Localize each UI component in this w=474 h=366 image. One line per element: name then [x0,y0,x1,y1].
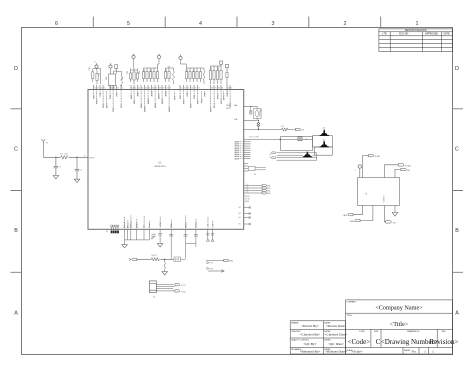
off-page connector K1a [175,284,180,286]
transceiver U2 body [358,178,400,206]
capacitor C1 [54,157,58,175]
svg-text:P30: P30 [204,92,206,97]
svg-text:3: 3 [272,21,275,27]
svg-text:SHEET:: SHEET: [404,350,411,352]
svg-text:REV: REV [442,331,447,333]
svg-text:5V: 5V [46,143,49,145]
svg-text:58: 58 [117,88,119,90]
svg-text:B: B [14,228,18,234]
U1 right pin wire P0 [244,185,262,187]
ground (C3) [157,244,163,247]
svg-text:C1: C1 [59,166,61,168]
resistor R24 [193,68,195,82]
svg-text:1: 1 [432,349,434,353]
transistor Q2 (dark) [321,142,328,147]
svg-text:<Release Date>: <Release Date> [325,350,347,354]
svg-text:P50: P50 [210,268,213,270]
wire long vertical 2 + bend [184,229,198,258]
svg-text:R23: R23 [187,69,189,72]
svg-text:60: 60 [247,184,249,186]
svg-text:R18: R18 [151,69,153,72]
svg-text:NC: NC [239,213,242,215]
jumper JP2 marks [151,234,156,239]
wire net1 (y=129.5) [244,129,296,131]
resistor R15 [143,68,145,82]
U1 right NC pin 2 [244,216,251,218]
resistor R10 [92,69,94,83]
U1 bottom pins to ground bus [125,229,150,244]
svg-text:62: 62 [247,189,249,191]
svg-text:69: 69 [162,88,164,90]
svg-text:C: C [14,147,18,153]
U1 right bus pin labels [235,141,240,161]
bus lines to driver [277,153,317,160]
junction dots reset rail [55,157,78,158]
off-page connector RM [386,221,392,223]
vertical pin labels mid group [171,221,198,228]
resistor R17 [150,68,152,82]
svg-text:R12: R12 [127,71,129,74]
wire cluster3 tie [131,59,138,70]
U2 pin wire TXD [362,156,368,178]
U1 right bus pin label smudges [235,142,243,159]
svg-text:P51: P51 [210,263,213,265]
svg-text:NC: NC [239,224,242,226]
svg-text:81: 81 [221,88,223,90]
resistor R1 (reset) [61,156,69,160]
pin ref TX [207,262,209,264]
svg-text:R21: R21 [166,69,168,72]
MOSFET Q4 [174,257,186,262]
svg-text:REVISION RECORD: REVISION RECORD [405,30,427,32]
resistor R23 [189,68,191,82]
svg-text:DATE:: DATE: [444,33,451,36]
ground (C2) [74,179,80,182]
filter block FB1 [248,166,266,170]
svg-text:A: A [270,153,272,156]
svg-text:RXCAN: RXCAN [405,164,412,167]
wire X0 [244,105,257,107]
svg-text:29: 29 [84,156,86,158]
resistor R18 [153,68,155,82]
svg-text:B: B [270,157,272,159]
svg-text:<Drawn Date>: <Drawn Date> [326,324,346,328]
svg-text:P17: P17 [174,95,176,100]
off-page connector CANH [355,219,360,221]
net arrow RX [221,270,224,273]
resistor R20 [165,68,167,82]
U1 top pin numbers [94,88,232,90]
svg-text:NC: NC [239,217,242,219]
svg-text:LTR: LTR [382,34,387,36]
power port VCC (top cluster 4) [157,54,160,59]
svg-text:61: 61 [134,88,136,90]
U1 bottom pin arrow 0 [206,229,209,241]
ground (C4) [249,113,252,115]
svg-text:P27: P27 [201,98,203,103]
power flag (square) cluster 2 [115,65,118,74]
svg-text:<QC Date>: <QC Date> [328,342,344,346]
right zone ticks [453,109,464,272]
U1 right bus pin stubs [244,142,251,159]
svg-text:OUT1: OUT1 [181,285,186,287]
svg-text:1: 1 [416,21,419,27]
svg-text:RN1: RN1 [106,77,108,80]
svg-text:B: B [455,228,459,234]
svg-text:71: 71 [169,88,171,90]
svg-text:U2: U2 [366,193,368,195]
svg-text:61: 61 [247,186,249,188]
svg-text:RT1: RT1 [122,77,124,80]
U1 reference/value label [154,162,166,168]
svg-text:R16: R16 [144,69,146,72]
svg-text:TXCAN: TXCAN [374,155,381,158]
svg-text:59: 59 [121,88,123,90]
svg-text:MD2X: MD2X [185,221,187,228]
svg-text:AVRH: AVRH [135,222,138,228]
resistor R14 [137,70,139,82]
power flag (square) cluster 8 [225,64,228,85]
svg-text:TLE6250: TLE6250 [384,196,386,203]
svg-text:<Company Name>: <Company Name> [375,304,423,311]
svg-text:K1: K1 [153,296,155,298]
capacitor C2 [75,157,79,179]
svg-text:63: 63 [247,191,249,193]
svg-text:P02: P02 [100,92,102,97]
svg-text:AVss0: AVss0 [123,221,126,228]
off-page connector RX2 [401,168,406,170]
svg-text:83: 83 [230,88,232,90]
svg-text:R2: R2 [282,126,284,128]
svg-text:SIN0: SIN0 [245,201,249,203]
wire drive net [137,259,174,262]
capacitor C4 (crystal left) [249,106,252,113]
svg-text:COMPANY:: COMPANY: [347,301,357,304]
svg-text:67: 67 [155,88,157,90]
U2 pin wire RX1 [385,165,399,178]
svg-text:NC: NC [239,207,242,209]
off-page connector P3 [262,192,266,194]
svg-text:V: V [355,169,357,171]
svg-text:R28: R28 [211,67,213,70]
resistor R12 [130,70,132,82]
resistor R29 [217,66,219,84]
svg-text:74: 74 [187,88,189,90]
svg-text:55: 55 [103,88,105,90]
svg-text:CANH: CANH [349,220,355,223]
svg-text:AVRL1: AVRL1 [130,221,133,229]
thermistor RT3 [203,71,205,81]
svg-text:64: 64 [145,88,147,90]
svg-text:76: 76 [194,88,196,90]
svg-text:79: 79 [214,88,216,90]
resistor R27 [210,66,212,84]
resistor R26 [200,68,202,82]
wire net2 (y=139) [244,139,313,141]
svg-text:C2: C2 [80,169,82,171]
U2 pin wire RX2 [395,169,401,177]
ground (RT4) [162,272,168,275]
power port VCC (U2) [358,165,361,178]
resistor R19 [157,68,159,82]
svg-text:Revision>: Revision> [430,338,459,346]
svg-text:70: 70 [166,88,168,90]
U1 bottom pin label smudge overlay [125,216,213,228]
power flag (square) cluster 7 [211,61,223,66]
svg-text:TITLE:: TITLE: [347,315,353,317]
svg-text:73: 73 [184,88,186,90]
svg-text:4: 4 [199,21,202,27]
wire cluster4 tie [144,59,160,68]
wire cluster1 tie [93,68,101,84]
svg-text:78: 78 [211,88,213,90]
svg-text:AVcc: AVcc [126,222,129,228]
svg-text:D: D [455,66,459,72]
svg-text:<Drawn By>: <Drawn By> [301,324,319,328]
svg-text:CLK: CLK [301,130,306,132]
svg-text:CODE: CODE [359,331,365,333]
svg-text:VCO CLKIN: VCO CLKIN [249,136,259,138]
svg-text:A: A [455,311,459,317]
off-page connector K1b [175,290,180,292]
resistor R25 [196,68,198,82]
top zone ticks [93,17,380,28]
svg-text:6: 6 [55,21,58,27]
crystal Y1 (oval in frame) [253,106,261,120]
U1 top pin label smudge overlay [94,91,231,111]
signed-off table [290,321,345,354]
off-page connector CANL [348,214,353,216]
wire RX line [208,270,221,272]
U1 right NC pin 3 [244,223,251,225]
svg-text:<Code>: <Code> [348,338,371,346]
svg-text:D: D [14,66,18,72]
svg-text:5: 5 [127,21,130,27]
svg-text:R10: R10 [89,67,91,70]
svg-text:MD1: MD1 [226,108,230,110]
wire X1 [244,119,257,121]
svg-text:No.: No. [412,349,417,353]
driver block rectangle Q-array [313,136,333,156]
bus loop rectangle [281,136,313,150]
power port VCC (top cluster 2) [109,63,112,68]
resistor R31 [226,70,228,80]
off-page connector bus a [272,152,276,154]
U1 right NC pin 1 [244,212,251,214]
svg-text:<Checked Date>: <Checked Date> [325,333,348,337]
svg-text:OUT2: OUT2 [181,291,186,293]
svg-text:RSTX: RSTX [89,157,95,159]
resistor pack RN1 [109,74,116,86]
svg-text:P23: P23 [190,103,192,108]
U1 right pin wire P1 [244,187,262,189]
svg-text:RM: RM [393,222,396,224]
resistor R30 [220,66,222,84]
thermistor RT4 [164,262,166,269]
svg-text:62: 62 [138,88,140,90]
svg-text:X1A: X1A [234,118,238,121]
svg-text:<Released By>: <Released By> [300,350,321,354]
svg-text:75: 75 [191,88,193,90]
svg-text:X0: X0 [208,224,210,226]
svg-text:10K: 10K [65,154,69,156]
svg-text:72: 72 [180,88,182,90]
pin ref RX [207,268,209,270]
svg-text:68: 68 [159,88,161,90]
svg-text:2: 2 [344,21,347,27]
off-page connector P0 [262,185,266,187]
junction dot net1 [258,129,259,130]
svg-text:ECO NO:: ECO NO: [399,34,409,36]
svg-text:U1: U1 [158,162,162,165]
wire cluster6 tie [181,60,205,69]
svg-text:C: C [455,147,459,153]
svg-text:CANL: CANL [343,214,348,217]
svg-text:1: 1 [424,349,426,353]
power port VCC (top cluster 3) [132,54,135,59]
transistor Q1 (dark) [321,130,328,135]
svg-text:R30: R30 [218,67,220,70]
svg-text:65: 65 [148,88,150,90]
junction dot drive net [164,259,165,260]
svg-text:HSTB: HSTB [196,222,198,228]
wire TX line [206,259,224,261]
U1 right pin wire P2 [244,190,262,192]
U1 right pins group 2 [244,164,249,172]
svg-text:63: 63 [141,88,143,90]
MCU U1 body [88,90,244,230]
svg-text:R1: R1 [60,154,62,156]
svg-text:R3 1K: R3 1K [152,255,158,257]
ground (U2) [392,212,398,216]
svg-text:P22: P22 [187,92,189,97]
svg-text:77: 77 [198,88,200,90]
svg-text:80: 80 [218,88,220,90]
svg-text:J2: J2 [305,139,307,141]
relay K1 body [150,281,157,293]
off-page connector P2 [262,190,266,192]
resistor R21 [168,68,170,82]
resistor R11 [96,70,98,84]
power port VCC (reset) [41,139,45,146]
svg-text:<Scale>: <Scale> [351,349,362,353]
off-page connector TXD [368,155,373,157]
thermistor RT2 [173,71,175,81]
U1 right NC pin 0 [244,206,251,208]
svg-text:MD1: MD1 [171,223,173,228]
svg-text:A: A [14,311,18,317]
U2 pin wire CANL [353,206,362,215]
off-page connector RX1 [398,164,403,166]
svg-text:<Checked By>: <Checked By> [300,333,321,337]
power port VCC (top cluster 1) [95,63,98,68]
U1 bottom pin arrow 1 [211,229,214,241]
svg-text:Vss2: Vss2 [149,222,151,228]
resistor R3 [151,258,159,261]
svg-text:R11: R11 [99,73,101,76]
U1 bottom pin labels (left group) [123,221,151,229]
svg-text:MB90F543G: MB90F543G [154,166,166,168]
svg-text:S1: S1 [106,231,108,233]
svg-text:P07: P07 [121,103,123,108]
off-page connector (net1) [296,128,301,130]
resistor network RN2 (4 elements) [111,225,119,233]
svg-text:54: 54 [100,88,102,90]
svg-text:DRAWN: DRAWN [291,321,299,324]
K1 wires [156,284,175,291]
svg-text:MD2: MD2 [226,105,230,107]
U2 pin wire CANH [360,206,373,221]
svg-text:60: 60 [131,88,133,90]
left zone ticks [11,109,22,272]
resistor R28 [213,66,215,84]
off-page connector bus b [272,157,276,159]
resistor R16 [146,68,148,82]
svg-text:<Title>: <Title> [390,321,409,328]
svg-text:SIZE: SIZE [374,331,379,333]
junction dots X0 [250,106,251,107]
svg-text:R14: R14 [139,71,141,74]
svg-text:4M: 4M [260,109,262,112]
U1 top pin name labels [93,90,232,112]
power port VCC (top cluster 6) [179,55,182,60]
U2 ground pin [394,206,396,213]
svg-text:INH: INH [407,170,411,172]
svg-text:TX0: TX0 [229,261,232,263]
svg-text:52: 52 [94,88,96,90]
transistor Q3 (dark) [304,152,311,157]
wire long vertical 1 [169,229,173,259]
svg-text:P06: P06 [116,92,118,97]
jumper block J2 on net2 [298,137,302,141]
svg-text:<QC By>: <QC By> [303,342,316,346]
off-page connector (drive input) [129,258,137,260]
U2 pin wire RM [385,206,386,222]
ground (bottom bus) [122,245,128,248]
junction dot net2 [280,139,281,140]
svg-text:APPROVED:: APPROVED: [425,33,439,36]
svg-text:82: 82 [227,88,229,90]
U1 right pin wire P3 [244,192,262,194]
svg-text:R: R [94,62,96,64]
ferrite bead L1 (stacked diamonds) [257,120,260,129]
svg-text:X1: X1 [212,224,214,226]
svg-text:SIN3: SIN3 [267,193,271,195]
U1 top pin stubs [94,85,231,91]
junction dot X1 [258,120,259,121]
resistor R2 (net1) [282,128,289,131]
thermistor RT1 [121,77,123,87]
connector TX (rect) [224,259,229,261]
svg-text:R25: R25 [194,69,196,72]
svg-text:Q1: Q1 [323,128,325,130]
off-page connector P1 [262,187,266,189]
wire cluster5 tie [166,66,174,70]
svg-text:MD0: MD0 [160,222,162,226]
U1 bottom pin MD0 with cap C3 [158,229,162,243]
resistor R22 [186,68,188,82]
svg-text:X2: X2 [254,174,256,176]
ground (C1) [53,176,59,179]
resistor R13 [133,68,135,84]
svg-text:66: 66 [152,88,154,90]
svg-text:Q2: Q2 [323,140,325,142]
wire reset rail [43,146,88,157]
svg-text:DRAWING NO: DRAWING NO [407,330,420,333]
svg-text:P03: P03 [103,103,105,108]
svg-text:CX: CX [144,225,146,229]
svg-text:53: 53 [97,88,99,90]
